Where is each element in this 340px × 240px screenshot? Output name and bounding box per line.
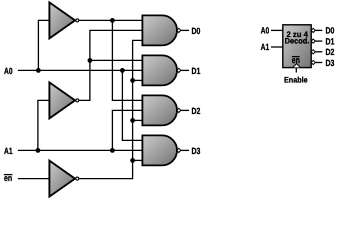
junction nA0 / bus branch	[110, 18, 115, 23]
svg-text:Decod.: Decod.	[285, 37, 310, 46]
wire A1 bus to gate D2	[112, 110, 142, 150]
wire A0 bus to gate D3	[122, 70, 142, 140]
block output port D1	[311, 39, 315, 43]
block enable stem	[295, 68, 297, 73]
block enable caret	[293, 64, 300, 68]
svg-text:D1: D1	[326, 36, 335, 46]
svg-text:D3: D3	[192, 146, 201, 156]
junction nA1 / D1 branch	[88, 58, 93, 63]
wire A0 to inverter 1 input	[38, 20, 49, 70]
wire D1	[181, 69, 189, 71]
wire en to gate D3	[133, 159, 143, 161]
svg-text:D2: D2	[326, 47, 335, 57]
gate D3 output port	[177, 148, 181, 152]
junction A0 / bus branch	[120, 68, 125, 73]
inverter U3 bubble	[76, 177, 79, 180]
svg-text:A0: A0	[261, 25, 270, 35]
block output port D3	[311, 60, 315, 64]
AND gate D1	[142, 55, 177, 85]
block wire D2	[315, 51, 322, 53]
svg-text:A1: A1	[261, 42, 270, 52]
inverter U2 (A1)	[49, 82, 75, 118]
svg-text:D0: D0	[192, 26, 201, 36]
wire D3	[181, 149, 189, 151]
svg-text:D3: D3	[326, 58, 335, 68]
svg-text:A1: A1	[4, 146, 13, 156]
en label overline	[4, 174, 13, 176]
junction A0 / inverter-1 branch	[36, 68, 41, 73]
wire A0	[18, 69, 142, 71]
block output port D0	[311, 28, 315, 32]
decoder block body	[283, 25, 311, 68]
block pin wire A0	[271, 29, 283, 31]
inverter U1 (A0)	[49, 2, 75, 38]
wire en	[18, 178, 50, 180]
AND gate D3	[142, 135, 177, 165]
inverter U1 bubble	[76, 19, 79, 22]
inverter U3 (en)	[49, 161, 75, 197]
AND gate D0	[142, 15, 177, 45]
wire nA0	[79, 19, 142, 21]
block en overline	[292, 56, 300, 58]
wire A1 to inverter 2 input	[38, 100, 50, 150]
junction en / D2 branch	[130, 118, 135, 123]
gate D2 output port	[177, 108, 181, 112]
wire nA0 bus to gate D2	[112, 20, 142, 100]
wire en-int bus to gate D0	[79, 40, 142, 178]
svg-text:A0: A0	[4, 66, 13, 76]
block wire D3	[315, 62, 322, 64]
junction A1 / inverter-2 branch	[36, 148, 41, 153]
svg-text:D0: D0	[326, 26, 335, 36]
wire nA1 to gate D1	[90, 59, 142, 61]
block pin wire A1	[271, 46, 283, 48]
svg-text:Enable: Enable	[284, 75, 308, 84]
block output port D2	[311, 50, 315, 54]
svg-text:D1: D1	[192, 66, 201, 76]
AND gate D2	[142, 95, 177, 125]
wire nA1 to gate D0	[79, 30, 142, 100]
junction en / D3 branch	[130, 158, 135, 163]
gate D0 output port	[177, 28, 181, 32]
svg-text:D2: D2	[192, 106, 201, 116]
gate D1 output port	[177, 68, 181, 72]
wire D0	[181, 29, 189, 31]
wire D2	[181, 109, 189, 111]
junction A1 / bus branch	[110, 148, 115, 153]
wire en to gate D1	[133, 79, 143, 81]
junction en / D1 branch	[130, 78, 135, 83]
block wire D0	[315, 29, 322, 31]
block wire D1	[315, 40, 322, 42]
wire en to gate D2	[133, 119, 143, 121]
wire A1	[18, 149, 142, 151]
inverter U2 bubble	[76, 99, 79, 102]
